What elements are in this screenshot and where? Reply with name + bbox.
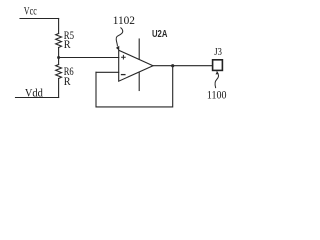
svg-text:Vcc: Vcc [24, 6, 37, 18]
svg-text:J3: J3 [214, 46, 222, 58]
svg-text:Vdd: Vdd [25, 88, 43, 100]
svg-text:R: R [64, 39, 71, 51]
svg-text:U2A: U2A [152, 29, 168, 40]
svg-text:1100: 1100 [207, 88, 227, 102]
svg-text:R: R [64, 76, 71, 88]
svg-text:1102: 1102 [113, 15, 136, 27]
